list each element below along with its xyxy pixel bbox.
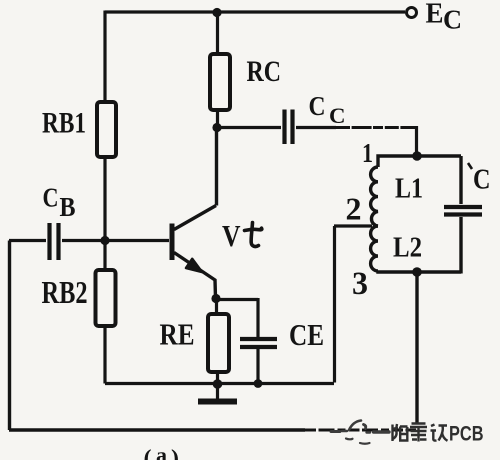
- svg-text:RE: RE: [160, 317, 195, 352]
- inductor L2: [371, 226, 378, 271]
- wire left vertical upper: [103, 11, 106, 103]
- svg-text:RB1: RB1: [42, 107, 86, 140]
- svg-text:V: V: [222, 218, 241, 253]
- capacitor CC: [285, 110, 293, 145]
- terminal EC: [407, 8, 417, 18]
- wire RC bottom stub: [216, 110, 219, 127]
- wire RE bottom stub: [216, 372, 219, 384]
- resistor RC: [210, 54, 230, 110]
- wire RC top stub: [216, 11, 219, 54]
- svg-text:3: 3: [352, 266, 368, 302]
- svg-text:2: 2: [346, 191, 362, 227]
- wire left vertical middle: [103, 157, 106, 270]
- node top-junction: [212, 8, 221, 17]
- svg-text:C: C: [309, 91, 326, 121]
- resistor RE: [208, 314, 229, 372]
- svg-text:L2: L2: [393, 232, 422, 264]
- wire tank down to bottom rail: [415, 272, 418, 423]
- transistor VT: [170, 206, 217, 299]
- svg-text:RB2: RB2: [42, 274, 88, 310]
- label VT: [222, 218, 262, 253]
- capacitor CB: [50, 223, 59, 260]
- wire base horizontal: [105, 239, 169, 242]
- node base junction: [100, 236, 109, 245]
- wire CC right segment: [296, 126, 336, 129]
- wire tap 2 vertical: [333, 226, 336, 383]
- svg-text:CE: CE: [289, 317, 324, 352]
- node tank bottom junction: [412, 267, 422, 277]
- svg-text:C: C: [473, 164, 491, 196]
- svg-text:L1: L1: [395, 173, 423, 205]
- capacitor C: [444, 207, 482, 215]
- label (a): [144, 443, 180, 460]
- node RE bottom junction: [213, 379, 223, 389]
- wire tank bottom: [378, 271, 461, 272]
- label C: [468, 163, 491, 196]
- wire top rail: [105, 10, 405, 13]
- svg-text:(: (: [144, 446, 152, 460]
- wire tank top: [378, 156, 461, 167]
- wire RE top stub: [215, 298, 218, 314]
- label CB: [43, 183, 76, 223]
- resistor RB2: [96, 270, 116, 326]
- label CC: [309, 91, 346, 128]
- watermark logo: [331, 421, 389, 444]
- wire CB left segment: [9, 239, 46, 242]
- wire CC left segment: [217, 126, 281, 129]
- svg-text:1: 1: [362, 138, 373, 168]
- wire CB right segment: [62, 239, 105, 242]
- node emitter junction: [211, 294, 220, 303]
- wire tap 2 horizontal: [334, 224, 372, 227]
- wire CE bottom stub: [256, 349, 259, 383]
- label EC: [426, 0, 463, 35]
- svg-text:C: C: [443, 5, 462, 35]
- node collector junction: [212, 123, 221, 132]
- svg-text:a: a: [156, 443, 167, 460]
- svg-text:B: B: [60, 192, 76, 222]
- capacitor CE: [240, 339, 277, 347]
- node CE bottom junction: [254, 379, 263, 388]
- wire left vertical lower: [103, 326, 106, 384]
- wire collector vertical: [215, 127, 218, 206]
- wire C top segment: [459, 156, 462, 204]
- svg-text:RC: RC: [247, 55, 282, 88]
- wire emitter junction to CE: [216, 298, 259, 337]
- svg-text:): ): [171, 446, 179, 460]
- wire bottom rail 2: [9, 428, 305, 432]
- svg-text:PCB: PCB: [449, 423, 484, 446]
- svg-text:C: C: [43, 183, 59, 213]
- inductor L1: [371, 167, 378, 226]
- resistor RB1: [97, 102, 116, 157]
- wire far-left vertical: [8, 241, 11, 431]
- node tank top junction: [412, 151, 422, 161]
- svg-text:C: C: [329, 103, 346, 128]
- wire bottom rail 2 dashed part: [305, 429, 416, 432]
- wire bottom rail 1: [105, 382, 334, 385]
- wire C bottom segment: [459, 217, 462, 274]
- watermark text: [393, 423, 484, 446]
- svg-text:E: E: [426, 0, 444, 30]
- ground: [198, 384, 237, 402]
